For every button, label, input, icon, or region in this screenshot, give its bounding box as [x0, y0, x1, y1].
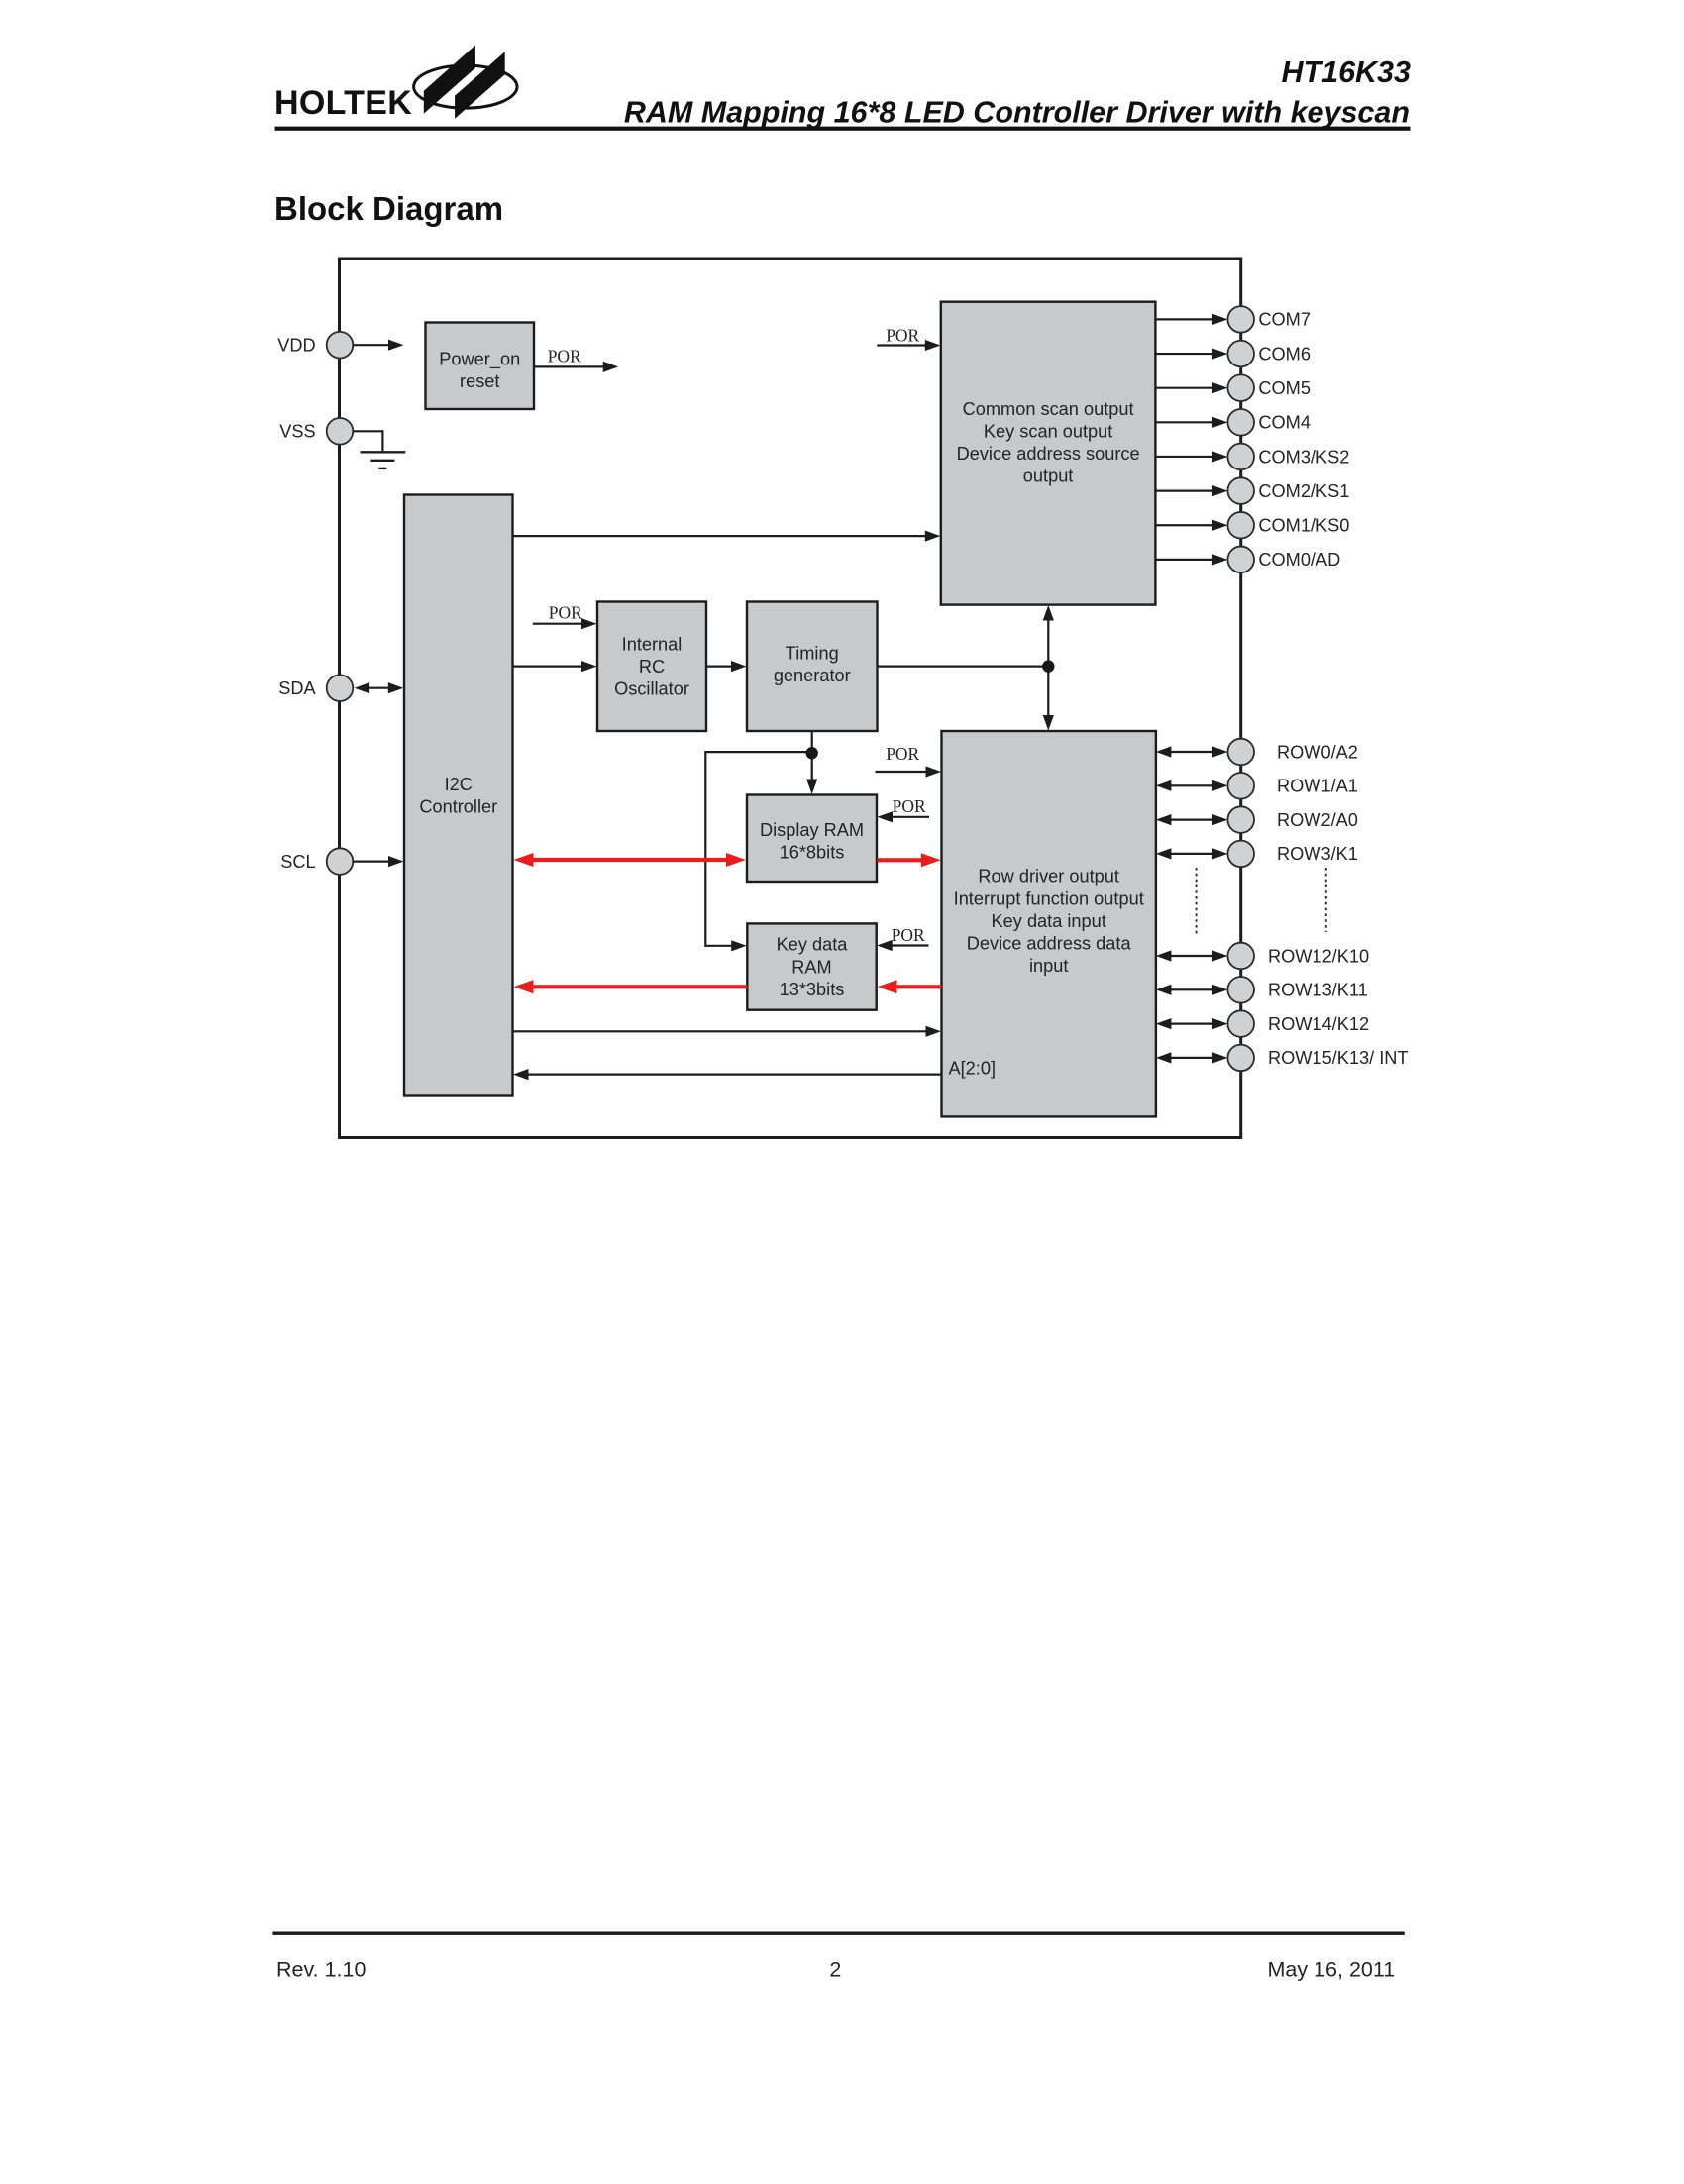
ground symbol [361, 451, 406, 453]
pin COM3/KS2 [1227, 444, 1254, 470]
svg-text:May 16, 2011: May 16, 2011 [1268, 1957, 1396, 1981]
svg-text:output: output [1023, 467, 1074, 486]
wire Common scan output to pin COM4 [1155, 421, 1213, 423]
svg-text:RAM: RAM [791, 957, 831, 977]
dotted continuation inside border [1196, 868, 1198, 936]
wire Row driver to pin ROW13/K11 (double arrow) [1170, 988, 1213, 990]
svg-text:generator: generator [774, 666, 851, 685]
pin VDD [327, 332, 354, 359]
pin COM7 [1227, 306, 1254, 333]
wire I2C Controller to Row driver block (arrow) [513, 1030, 927, 1032]
svg-text:HOLTEK: HOLTEK [274, 84, 412, 122]
wire Common scan output to pin COM7 [1155, 318, 1213, 320]
outer chip boundary [340, 259, 1241, 1138]
svg-text:RC: RC [639, 657, 665, 676]
svg-text:Key data: Key data [777, 935, 849, 955]
svg-text:Device address data: Device address data [967, 934, 1132, 954]
svg-text:2: 2 [829, 1957, 841, 1981]
svg-text:COM0/AD: COM0/AD [1258, 550, 1340, 570]
block Common scan output / Key scan output / Device address source output [941, 302, 1156, 605]
svg-text:COM3/KS2: COM3/KS2 [1258, 447, 1349, 467]
pin COM6 [1227, 341, 1254, 367]
wire Common scan output to pin COM2/KS1 [1155, 490, 1213, 492]
pin VSS [327, 418, 354, 445]
svg-text:VDD: VDD [277, 336, 315, 356]
block Power_on reset [426, 323, 535, 410]
wire Row driver to pin ROW2/A0 (double arrow) [1170, 818, 1213, 820]
wire Row driver to pin ROW1/A1 (double arrow) [1170, 784, 1213, 786]
wire Row driver to pin ROW15/K13/ INT (double arrow) [1170, 1057, 1213, 1059]
svg-text:ROW3/K1: ROW3/K1 [1277, 844, 1358, 864]
svg-text:SCL: SCL [280, 852, 315, 872]
svg-text:input: input [1029, 956, 1068, 976]
svg-text:Internal: Internal [622, 634, 683, 654]
svg-text:Controller: Controller [419, 797, 497, 817]
pin ROW1/A1 [1227, 773, 1254, 799]
junction dot on scan bus [1042, 660, 1054, 672]
svg-text:Key data input: Key data input [992, 911, 1106, 931]
svg-text:POR: POR [886, 326, 919, 346]
pin SCL [327, 848, 354, 875]
svg-text:Timing: Timing [786, 644, 839, 664]
wire Common scan output to pin COM5 [1155, 387, 1213, 389]
wire Timing generator to scan bus junction [878, 665, 1049, 667]
pin ROW12/K10 [1227, 943, 1254, 970]
svg-text:COM1/KS0: COM1/KS0 [1258, 516, 1349, 536]
svg-text:POR: POR [892, 925, 925, 945]
pin ROW3/K1 [1227, 841, 1254, 868]
svg-text:Oscillator: Oscillator [614, 679, 689, 699]
svg-text:ROW13/K11: ROW13/K11 [1268, 981, 1368, 1000]
pin ROW14/K12 [1227, 1010, 1254, 1037]
svg-text:COM7: COM7 [1258, 310, 1311, 330]
svg-text:SDA: SDA [278, 678, 316, 698]
pin COM4 [1227, 409, 1254, 436]
block I2C Controller [404, 495, 513, 1096]
pin ROW2/A0 [1227, 806, 1254, 833]
wire Timing generator to Display RAM (arrow down) [811, 731, 813, 780]
logo ellipse [414, 65, 517, 108]
wire Row driver to pin ROW0/A2 (double arrow) [1170, 751, 1213, 753]
svg-text:Key scan output: Key scan output [984, 422, 1112, 442]
svg-text:Device address source: Device address source [957, 444, 1140, 464]
pin COM1/KS0 [1227, 512, 1254, 539]
wire I2C Controller to Common scan output block [513, 535, 926, 537]
svg-text:COM6: COM6 [1258, 344, 1311, 364]
wire Row driver to pin ROW3/K1 (double arrow) [1170, 853, 1213, 855]
pin COM2/KS1 [1227, 477, 1254, 504]
svg-text:POR: POR [886, 744, 919, 764]
svg-text:Rev. 1.10: Rev. 1.10 [276, 1957, 366, 1981]
pin COM0/AD [1227, 547, 1254, 573]
svg-text:Display RAM: Display RAM [760, 820, 864, 840]
logo bolt right [455, 52, 505, 119]
wire I2C Controller to Internal RC Oscillator [513, 665, 583, 667]
wire Row driver block to I2C Controller A[2:0] (arrow) [528, 1073, 942, 1075]
wire branch junction to Key data RAM [705, 751, 812, 753]
wire Common scan output to pin COM6 [1155, 353, 1213, 355]
wire SDA to I2C Controller (double arrow) [368, 687, 389, 689]
svg-text:VSS: VSS [279, 422, 315, 442]
wire vertical bus Common scan block to Row driver block (double arrow) [1047, 620, 1049, 717]
logo bolt left [424, 46, 475, 114]
pin COM5 [1227, 374, 1254, 401]
wire Row driver to pin ROW14/K12 (double arrow) [1170, 1022, 1213, 1024]
red bus I2C Controller to Display RAM (double arrow) [533, 858, 728, 862]
wire SCL to I2C Controller (arrow) [353, 860, 389, 862]
svg-text:Block Diagram: Block Diagram [274, 190, 503, 227]
svg-text:RAM Mapping 16*8 LED Controlle: RAM Mapping 16*8 LED Controller Driver w… [624, 95, 1410, 129]
svg-text:Interrupt function output: Interrupt function output [954, 888, 1144, 908]
pin SDA [327, 675, 354, 701]
block Display RAM 16*8bits [747, 795, 877, 883]
svg-text:ROW12/K10: ROW12/K10 [1268, 946, 1369, 966]
wire VDD to Power_on reset (arrow) [353, 344, 389, 346]
svg-text:16*8bits: 16*8bits [780, 842, 845, 862]
svg-text:Row driver output: Row driver output [978, 867, 1119, 886]
svg-text:POR: POR [549, 603, 582, 623]
pin ROW15/K13/ INT [1227, 1045, 1254, 1072]
svg-text:POR: POR [548, 347, 581, 366]
block Row driver output / Interrupt function output / Key data input / Device address data input [942, 731, 1156, 1116]
block Timing generator [747, 602, 878, 732]
svg-text:ROW2/A0: ROW2/A0 [1277, 810, 1358, 830]
svg-text:ROW15/K13/ INT: ROW15/K13/ INT [1268, 1048, 1409, 1068]
pin ROW0/A2 [1227, 739, 1254, 766]
svg-text:ROW0/A2: ROW0/A2 [1277, 742, 1358, 762]
svg-text:A[2:0]: A[2:0] [949, 1058, 997, 1078]
svg-text:13*3bits: 13*3bits [780, 980, 845, 999]
svg-text:POR: POR [893, 796, 926, 816]
footer rule [272, 1932, 1404, 1935]
svg-text:Common scan output: Common scan output [963, 399, 1134, 419]
junction dot below Timing generator [806, 747, 818, 759]
block Key data RAM 13*3bits [747, 923, 876, 1009]
wire VSS to ground [353, 430, 382, 432]
red bus Row driver block to Key data RAM [896, 985, 942, 988]
block Internal RC Oscillator [597, 602, 706, 732]
svg-text:COM4: COM4 [1258, 413, 1311, 433]
wire Internal RC Oscillator to Timing generator [706, 665, 732, 667]
pin ROW13/K11 [1227, 977, 1254, 1003]
dotted continuation next to labels [1325, 868, 1327, 932]
svg-text:COM2/KS1: COM2/KS1 [1258, 481, 1349, 501]
svg-text:COM5: COM5 [1258, 378, 1311, 398]
red bus Display RAM to Row driver block [878, 858, 922, 862]
svg-text:ROW1/A1: ROW1/A1 [1277, 777, 1358, 796]
svg-text:Power_on: Power_on [439, 350, 520, 370]
wire Common scan output to pin COM0/AD [1155, 559, 1213, 561]
red bus Key data RAM to I2C Controller [533, 985, 748, 988]
svg-text:ROW14/K12: ROW14/K12 [1268, 1014, 1369, 1034]
svg-text:reset: reset [460, 371, 499, 391]
wire Common scan output to pin COM3/KS2 [1155, 456, 1213, 458]
wire Common scan output to pin COM1/KS0 [1155, 524, 1213, 526]
wire Row driver to pin ROW12/K10 (double arrow) [1170, 955, 1213, 957]
svg-text:I2C: I2C [445, 775, 473, 794]
header rule [275, 127, 1411, 131]
svg-text:HT16K33: HT16K33 [1281, 55, 1411, 89]
